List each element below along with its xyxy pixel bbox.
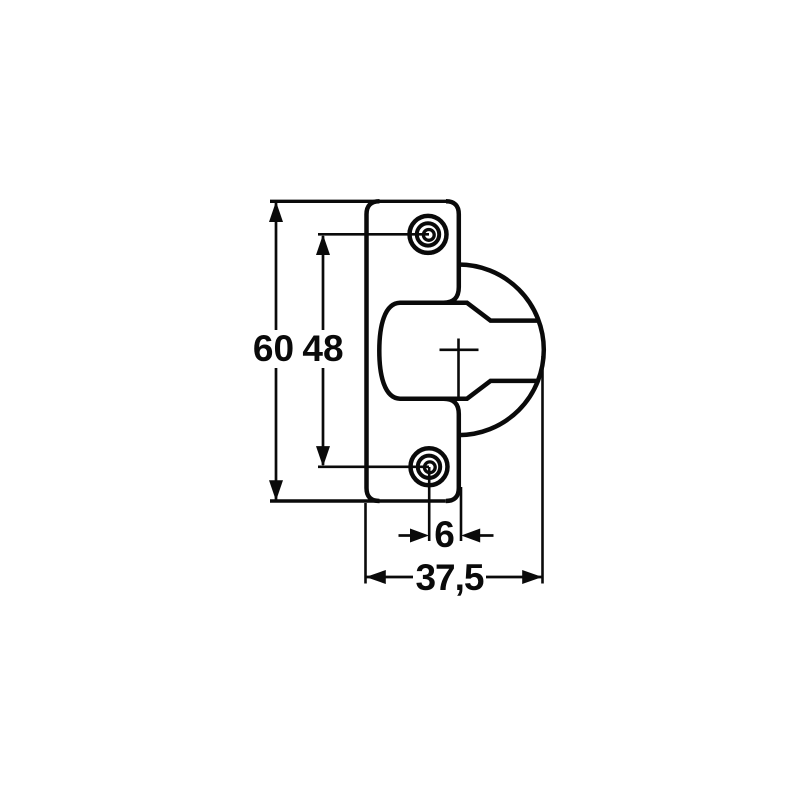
round boss half-circle arc	[459, 265, 544, 436]
svg-text:6: 6	[434, 514, 455, 555]
dim 37.5 line right segment	[486, 576, 543, 579]
dimension 60 vertical line upper segment	[275, 203, 278, 330]
plate right edge extension line for dim 6	[460, 487, 463, 541]
extension line 48 bottom	[318, 465, 429, 468]
dim 6 right arrow tail	[478, 534, 494, 537]
plate top edge with left extension line	[270, 200, 446, 203]
mounting plate right edge lower part and bottom-right corner	[444, 399, 459, 501]
extension line 37.5 right	[541, 356, 544, 584]
svg-text:37,5: 37,5	[415, 557, 483, 598]
dim 37.5 right arrow head	[522, 570, 542, 584]
bottom screw hole inner circle	[424, 462, 435, 473]
dimension 60 vertical line lower segment	[275, 368, 278, 500]
bottom screw hole middle circle	[418, 456, 440, 478]
plate bottom edge with left extension line	[270, 499, 446, 502]
bottom screw axis extension line	[428, 467, 431, 541]
center cross horizontal line	[440, 348, 479, 351]
dimension 48 vertical line upper segment	[322, 236, 325, 330]
top screw hole outer circle	[410, 216, 447, 253]
extension line 48 top	[318, 233, 429, 236]
top screw hole middle circle	[417, 223, 439, 245]
mounting plate outline left side and corners	[367, 201, 380, 501]
svg-text:60: 60	[253, 328, 294, 369]
svg-text:48: 48	[302, 328, 343, 369]
dim 6 right arrow head	[461, 529, 480, 543]
dim 60 top arrow	[269, 202, 283, 223]
dim 37.5 line left segment	[366, 576, 414, 579]
dim 37.5 left arrow head	[366, 570, 386, 584]
dim 6 left arrow tail	[399, 534, 413, 537]
mounting plate top-right corner and right edge upper part	[444, 201, 459, 302]
dim 48 top arrow	[316, 235, 330, 256]
center cross vertical line	[457, 339, 460, 399]
dim 6 left arrow head	[410, 529, 429, 543]
bottom screw hole outer circle	[411, 448, 448, 485]
extension line 37.5 left	[364, 503, 367, 584]
top screw hole inner circle	[423, 230, 434, 241]
dim 60 bottom arrow	[269, 480, 283, 501]
dim 48 bottom arrow	[316, 446, 330, 467]
dimension 48 vertical line lower segment	[322, 368, 325, 465]
hinge arm socket (hat) outline	[379, 303, 538, 399]
